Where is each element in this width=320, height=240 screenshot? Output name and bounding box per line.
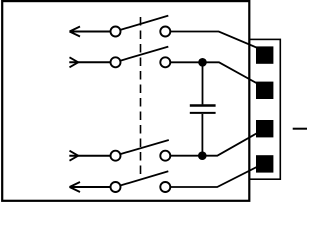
switch S1C left contact [111,151,121,161]
switch S1C right contact [160,151,170,161]
switch S1D right contact [160,182,170,192]
switch S1A left contact [111,27,121,37]
arrow (out) row 1 [70,27,81,37]
enclosure box (component outline) [2,1,249,201]
connector pin 4 pad [256,155,273,172]
capacitor C1 top lead [202,62,204,104]
switch gang link (dashed mechanical tie) [140,17,142,180]
switch S1B left contact [111,57,121,67]
wire: row 2 input lead [69,61,111,63]
wire: row 3 to pin 3 [171,134,256,156]
arrow (out) row 4 [70,182,81,192]
arrow (in) row 2 [70,57,79,67]
junction node row 3 / capacitor bottom [198,151,207,160]
wire: row 2 to pin 2 [171,62,256,83]
connector pin 1 pad [256,46,273,63]
arrow (in) row 3 [70,151,79,161]
wire: row 4 to pin 4 [171,167,256,187]
connector J1 body [249,39,280,179]
capacitor C1 top plate [190,104,216,106]
wire: row 4 input lead [70,186,112,188]
switch S1B blade [120,47,168,61]
switch S1D blade [120,171,168,185]
capacitor C1 bottom plate [190,112,216,114]
switch S1B right contact [160,57,170,67]
switch S1A right contact [160,27,170,37]
wire: row 1 to pin 1 [171,32,256,48]
switch S1A blade [120,16,168,30]
connector pin 3 pad [256,120,273,137]
wire: row 1 input lead [70,31,112,33]
connector pin 2 pad [256,82,273,99]
switch S1D left contact [111,182,121,192]
switch S1C blade [120,140,169,154]
capacitor C1 bottom lead [201,114,203,156]
pin 3 external lead stub [293,128,307,130]
wire: row 3 input lead [69,155,111,157]
junction node row 2 / capacitor top [198,58,207,67]
